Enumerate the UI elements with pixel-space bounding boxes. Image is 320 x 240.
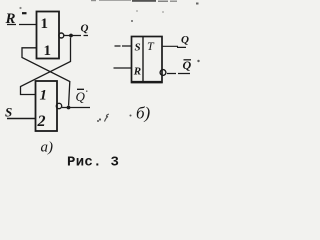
svg-text:Рис. 3: Рис. 3 [67, 155, 119, 171]
svg-text:R: R [133, 66, 141, 78]
svg-text:1: 1 [41, 16, 49, 32]
svg-text:1: 1 [44, 43, 52, 59]
svg-text:Q: Q [181, 34, 189, 46]
svg-text:S: S [135, 42, 141, 54]
svg-text:б): б) [136, 104, 151, 123]
svg-text:2: 2 [37, 113, 46, 130]
svg-text:1: 1 [40, 88, 48, 104]
svg-text:Q: Q [76, 89, 86, 104]
svg-text:S: S [5, 105, 12, 120]
svg-text:а): а) [41, 140, 54, 156]
svg-text:Q: Q [81, 23, 89, 35]
svg-text:R: R [5, 11, 16, 27]
